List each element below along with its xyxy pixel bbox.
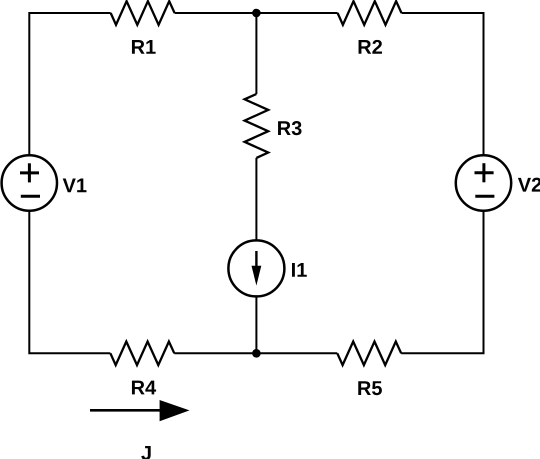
resistor R4 <box>110 342 174 366</box>
wire V1 bottom to bottom-left corner to R4 left terminal <box>29 211 110 353</box>
label V1 <box>63 178 87 192</box>
node B (bottom junction dot) <box>252 349 261 358</box>
wire I1 bottom to node B <box>255 297 257 353</box>
resistor R1 <box>111 1 175 25</box>
label R2 <box>359 40 382 54</box>
label I1 <box>292 263 307 277</box>
label R3 <box>278 121 302 135</box>
wire top-right (R2 right terminal to V2 top) <box>402 13 484 155</box>
current arrow J <box>90 400 190 421</box>
label R1 <box>132 40 156 54</box>
label R4 <box>132 381 156 395</box>
label J <box>141 446 150 459</box>
wire bottom-right (R5 right terminal to V2 bottom) <box>401 212 483 354</box>
wire top-middle (R1 right terminal to R2 left terminal through node A) <box>175 12 338 14</box>
resistor R5 <box>337 342 401 366</box>
wire R3 bottom to I1 top <box>255 158 257 240</box>
label V2 <box>518 178 540 192</box>
resistor R3 <box>245 94 269 158</box>
current source I1 <box>228 240 284 296</box>
voltage source V1 <box>2 155 57 210</box>
node A (top junction dot) <box>252 9 261 18</box>
voltage source V2 <box>456 155 511 210</box>
resistor R2 <box>338 1 402 25</box>
wire node A to R3 top <box>255 13 257 94</box>
wire bottom-middle (R4 right terminal to R5 left terminal through node B) <box>174 352 337 354</box>
label R5 <box>358 381 382 395</box>
wire top-left (from V1 top corner to R1 left terminal) <box>29 13 110 155</box>
